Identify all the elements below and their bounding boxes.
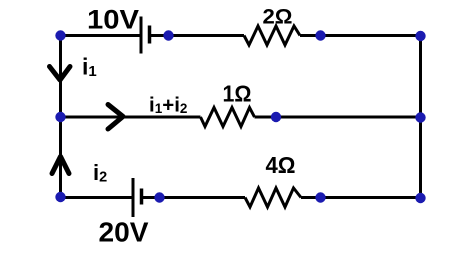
node dot bottom-right corner (415, 193, 425, 203)
svg-text:2Ω: 2Ω (263, 5, 293, 29)
node dot after battery 20V (154, 192, 164, 202)
wire middle rail left segment (node C to resistor R2) (61, 116, 201, 119)
svg-text:4Ω: 4Ω (266, 152, 296, 178)
wire bottom rail left segment (node E to battery V2) (61, 196, 134, 199)
node dot top-left (55, 30, 65, 40)
node dot middle-right (415, 112, 425, 122)
resistor 4ohm zigzag (245, 188, 301, 207)
wire top rail middle segment (battery V1 to resistor R1) (150, 34, 245, 37)
resistor 2ohm zigzag (244, 26, 300, 45)
node dot after resistor 1ohm (271, 112, 281, 122)
node dot bottom-left (55, 192, 65, 202)
node dot after battery 10V (163, 30, 173, 40)
node dot after resistor 2ohm (315, 30, 325, 40)
current arrow i2 (upward chevron) (52, 157, 69, 174)
node dot after resistor 4ohm (315, 192, 325, 202)
battery 20V plates (133, 178, 142, 217)
svg-text:10V: 10V (87, 5, 139, 35)
wire middle rail right segment (resistor R2 to node D) (255, 116, 421, 119)
node dot middle-left (55, 112, 65, 122)
wire bottom rail right segment (resistor R3 to node F) (301, 196, 421, 199)
wire bottom rail middle segment (battery V2 to resistor R3) (142, 196, 246, 199)
resistor 1ohm zigzag (201, 108, 255, 127)
wire top rail left segment (node A to battery V1) (61, 34, 142, 37)
svg-text:1Ω: 1Ω (223, 81, 252, 107)
wire left vertical branch (59, 36, 62, 198)
wire top rail right segment (resistor R1 to node B) (300, 34, 421, 37)
svg-text:20V: 20V (99, 217, 149, 248)
current arrow i1+i2 (right chevron) (108, 105, 123, 130)
battery 10V plates (141, 17, 150, 54)
wire right vertical branch (419, 36, 422, 199)
current arrow i1 (downward chevron) (50, 67, 71, 81)
node dot top-right corner (415, 31, 425, 41)
